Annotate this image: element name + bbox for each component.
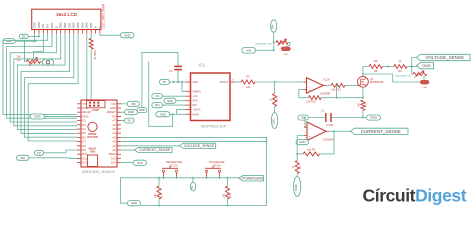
svg-text:VREFA: VREFA — [192, 89, 201, 93]
svg-text:AREF: AREF — [109, 152, 117, 156]
junction dots VDD net — [173, 81, 184, 83]
svg-text:A0: A0 — [112, 148, 116, 152]
svg-text:R9: R9 — [398, 69, 402, 73]
net flag CURRENT_SENSE mid — [134, 147, 172, 152]
svg-text:A6: A6 — [112, 123, 116, 127]
svg-text:SDI: SDI — [192, 103, 197, 107]
wire R15 — [227, 178, 229, 186]
svg-text:CN4: CN4 — [422, 87, 427, 89]
svg-text:R8: R8 — [374, 69, 378, 73]
svg-text:SCK: SCK — [192, 99, 198, 103]
resistor R9 1k — [394, 59, 407, 73]
svg-text:R2 560R: R2 560R — [94, 50, 97, 60]
resistor R14 10k pulldown decrease — [154, 186, 164, 199]
svg-text:CN1: CN1 — [283, 54, 288, 56]
svg-text:5V: 5V — [112, 114, 115, 118]
wire A pin down to R2 — [90, 34, 92, 39]
op-amp IC2B LM358N — [304, 122, 334, 142]
net flag SDI arduino D11 — [17, 155, 30, 160]
wire R14 top — [158, 178, 160, 186]
ground flag GND arduino left — [30, 114, 45, 119]
wire ic2b minus — [297, 136, 304, 154]
svg-text:CS: CS — [155, 94, 159, 98]
wire sck loop — [149, 62, 173, 127]
junction dot divider — [387, 66, 389, 68]
svg-text:RESET: RESET — [82, 110, 91, 114]
DAC IC1 MCP4921 — [186, 73, 236, 121]
wire A2 net — [121, 141, 267, 143]
svg-text:C1: C1 — [321, 108, 325, 112]
svg-text:~CS: ~CS — [192, 94, 197, 98]
wire 5V stub — [192, 178, 194, 183]
wire R4 bottom — [274, 107, 276, 113]
svg-text:5V: 5V — [128, 119, 132, 123]
svg-text:A3: A3 — [112, 135, 116, 139]
wire R13 to gate — [345, 84, 358, 86]
wire 5V to VDD — [28, 35, 39, 37]
wire R6 left — [297, 153, 303, 155]
wire GND right — [121, 111, 125, 113]
net flag POWERSAVE — [239, 176, 264, 182]
svg-text:IC1: IC1 — [199, 63, 206, 68]
wire vin vertical — [273, 32, 275, 50]
svg-text:GND: GND — [422, 64, 431, 68]
svg-text:DECREASE: DECREASE — [166, 160, 183, 164]
svg-text:A2: A2 — [112, 140, 116, 144]
resistor R3 10k — [241, 75, 255, 89]
wire K pin to GND flag — [100, 34, 121, 36]
svg-text:IC2B: IC2B — [327, 123, 333, 127]
wire divider down to trimmer — [412, 67, 413, 75]
svg-text:R4: R4 — [276, 98, 279, 102]
ground flag pot — [43, 59, 54, 65]
capacitor C1 — [321, 108, 331, 122]
junction dot avss — [172, 113, 174, 115]
wire R12 to shunt — [321, 97, 363, 99]
svg-text:D12: D12 — [82, 161, 87, 165]
wire R4 top — [274, 82, 276, 94]
ground flag GND divider — [417, 62, 434, 68]
svg-text:VIN: VIN — [272, 25, 275, 29]
svg-text:D9: D9 — [82, 148, 86, 152]
wire R14 bottom — [158, 199, 160, 206]
resistor R13 10k — [331, 83, 345, 91]
svg-text:R14: R14 — [161, 193, 164, 198]
resistor R2 560R — [89, 38, 97, 60]
wire plus input ic2b — [304, 118, 305, 128]
svg-text:D3: D3 — [82, 123, 86, 127]
svg-text:D5: D5 — [82, 131, 86, 135]
svg-text:GND: GND — [131, 201, 137, 205]
svg-text:A4: A4 — [112, 131, 116, 135]
svg-text:D13: D13 — [111, 161, 116, 165]
resistor R8 10k — [369, 59, 383, 73]
LCD part name label — [102, 3, 106, 29]
net flag VIN arduino right — [127, 101, 140, 106]
svg-text:8: 8 — [232, 80, 234, 82]
wire SCK flag — [121, 162, 133, 164]
wire trimmer to pad — [423, 76, 425, 80]
svg-text:5V: 5V — [163, 80, 167, 84]
wire R2 down to arduino — [90, 49, 92, 100]
svg-text:SDI: SDI — [20, 156, 25, 160]
wire R8 to R9 — [383, 66, 394, 68]
svg-text:MCP4921-E/P: MCP4921-E/P — [201, 124, 227, 129]
svg-text:LCD_16X2_5V0R: LCD_16X2_5V0R — [102, 3, 106, 29]
svg-text:5V: 5V — [22, 34, 26, 38]
junction dot R4 node — [274, 81, 276, 83]
svg-text:CURRENT_SENSE: CURRENT_SENSE — [139, 148, 171, 152]
wire C1 left — [308, 117, 326, 119]
wire R5 top — [296, 154, 298, 161]
svg-text:R15: R15 — [229, 193, 232, 198]
svg-text:1k: 1k — [293, 165, 295, 168]
wire LCD pin to arduino D9 — [28, 34, 78, 141]
wire LDAC — [177, 110, 186, 115]
trimmer CN4 — [395, 71, 427, 78]
capacitor C2 100nF — [169, 52, 182, 82]
wire current sense net — [121, 149, 134, 151]
wire shunt bottom — [363, 111, 367, 118]
svg-text:D6: D6 — [82, 135, 86, 139]
svg-text:GNDBREAK_GND: GNDBREAK_GND — [255, 43, 272, 46]
wire LCD pin to arduino D5 — [14, 34, 77, 126]
wire LCD pin to arduino D7 — [21, 34, 77, 134]
svg-text:10k: 10k — [154, 193, 157, 198]
wire VOUTA to R3 — [235, 81, 241, 83]
svg-text:5V: 5V — [37, 151, 41, 155]
svg-text:DTS-6: DTS-6 — [213, 164, 221, 168]
svg-text:R10: R10 — [366, 102, 368, 107]
svg-text:LM358N: LM358N — [323, 138, 334, 142]
svg-text:GND: GND — [110, 106, 116, 110]
CircuitDigest logo — [363, 186, 467, 206]
wire R5 bottom — [296, 174, 298, 177]
wire pot to flag — [41, 60, 43, 62]
supply flag 5V (LCD VDD) — [19, 34, 28, 38]
wire LCD pin to arduino D3 — [7, 34, 77, 119]
ground flag GND right of LCD — [121, 33, 135, 38]
svg-text:D8: D8 — [82, 144, 86, 148]
svg-text:SDI: SDI — [155, 103, 160, 107]
net flag VIN oval — [242, 48, 256, 54]
svg-text:USB: USB — [90, 150, 95, 153]
svg-text:5V: 5V — [190, 186, 194, 189]
net flag SCK ic1 — [164, 98, 176, 103]
wire source down — [362, 87, 364, 98]
svg-text:~LDAC: ~LDAC — [192, 108, 201, 112]
svg-text:CírcuitDigest: CírcuitDigest — [363, 186, 467, 206]
svg-text:GND: GND — [128, 110, 134, 114]
svg-text:R3: R3 — [246, 75, 250, 79]
arduino caption — [82, 170, 115, 174]
svg-text:D10: D10 — [82, 152, 87, 156]
svg-text:A7: A7 — [112, 119, 116, 123]
junction dots LCD supply — [24, 35, 40, 42]
net flag VOLTAGE_SENSE mid — [179, 143, 215, 148]
svg-text:GND: GND — [82, 114, 88, 118]
svg-text:VOLTAGE_SENSE: VOLTAGE_SENSE — [184, 144, 215, 148]
svg-text:ICSP: ICSP — [92, 108, 99, 112]
IC1 value label — [201, 124, 227, 129]
svg-text:VIN: VIN — [131, 102, 136, 106]
wire SDI flag to pin — [29, 157, 77, 160]
resistor R5 1k — [293, 161, 302, 174]
svg-text:SCK: SCK — [137, 161, 143, 165]
wire buttons gnd rail — [121, 178, 239, 203]
push button S2 INCREASE — [205, 160, 225, 178]
svg-text:IRF9540NS: IRF9540NS — [370, 80, 384, 84]
MOSFET Q1 IRF9540NS — [358, 76, 384, 87]
net flag CS — [152, 94, 163, 99]
wire SDI ic1 — [163, 104, 186, 106]
svg-text:AVSS: AVSS — [192, 112, 199, 116]
svg-text:D11: D11 — [82, 156, 87, 160]
wire pot left leg — [25, 41, 27, 61]
ground flag GND below R5 — [294, 177, 301, 197]
svg-text:1k: 1k — [399, 59, 402, 63]
ground flag GND buttons — [128, 201, 141, 206]
svg-text:GND: GND — [34, 115, 40, 119]
wire 5V flag to pin — [44, 150, 78, 153]
net flag supply top — [271, 20, 277, 33]
ground flag GND avss — [156, 112, 170, 117]
wire VREFA tie — [182, 82, 186, 91]
svg-text:ARDUINO_NANO3: ARDUINO_NANO3 — [82, 170, 115, 174]
junction dots button rail — [158, 177, 229, 207]
svg-text:10k: 10k — [223, 193, 226, 198]
svg-text:GND: GND — [124, 33, 130, 37]
push button S1 DECREASE — [162, 160, 182, 178]
svg-text:R5: R5 — [300, 165, 302, 169]
svg-text:A5: A5 — [112, 127, 116, 131]
IC1 name label — [199, 63, 206, 68]
net flag SCK arduino D13 — [133, 160, 147, 165]
wire LCD pin to arduino D4 — [10, 34, 77, 122]
wire GND to VSS — [15, 40, 37, 42]
wire gate feedback branch — [336, 85, 338, 97]
trimmer CN1 branch — [255, 39, 288, 46]
wire VIN right — [121, 103, 127, 105]
wire R3 to opamp — [255, 81, 307, 83]
wire ic2b out — [329, 130, 351, 132]
supply flag 5V current sense — [298, 115, 308, 120]
supply flag 5V arduino right — [125, 118, 135, 123]
ground flag GND arduino right — [125, 110, 138, 115]
op-amp IC2A LM358P — [304, 78, 331, 96]
wire powersave loop — [121, 137, 267, 205]
svg-text:A1: A1 — [112, 144, 116, 148]
svg-text:GND: GND — [139, 108, 145, 112]
ground flag GND ic2b plus — [296, 140, 309, 145]
wire VSS pin down — [34, 34, 36, 42]
wire CS — [163, 95, 186, 97]
svg-text:DTS-6: DTS-6 — [170, 164, 178, 168]
wire 5V right — [121, 120, 125, 122]
svg-text:VOLTAGE_SENSE: VOLTAGE_SENSE — [425, 55, 464, 60]
wire trimmer to pad cn1 — [286, 42, 290, 46]
wire SCK ic1 — [176, 100, 186, 102]
arduino nano module ARDUINO_NANO3 — [77, 100, 121, 167]
svg-text:GND: GND — [294, 184, 298, 190]
svg-text:LM358P: LM358P — [320, 92, 331, 96]
wire opamp A feedback — [299, 90, 309, 98]
svg-text:GND: GND — [160, 112, 166, 116]
LCD display LCD1 16x2 — [32, 9, 102, 33]
wire AVSS — [170, 113, 186, 115]
svg-text:GND: GND — [370, 116, 376, 120]
net flag VOLTAGE_SENSE right — [417, 54, 471, 60]
wire 5V to VDD — [170, 81, 186, 83]
resistor R4 1k — [269, 94, 279, 107]
svg-text:VIN: VIN — [111, 102, 116, 106]
wire to voltage sense tag — [412, 58, 417, 67]
svg-text:GND: GND — [299, 140, 305, 144]
ground flag GND (LCD VSS) — [3, 39, 15, 44]
svg-text:D2: D2 — [82, 119, 86, 123]
net flag SDI ic1 — [152, 103, 163, 108]
connector CN1 pad — [281, 47, 291, 56]
net flag CURRENT_SENSE right — [351, 128, 409, 134]
wire LCD pin to arduino D2 — [3, 34, 77, 115]
junction dot r12 node — [362, 97, 364, 99]
svg-text:D4: D4 — [82, 127, 86, 131]
svg-text:VOUTA: VOUTA — [219, 80, 228, 84]
wire VO to pot wiper — [34, 34, 44, 59]
resistor R6 10k — [303, 147, 319, 156]
svg-text:POWERSAVE: POWERSAVE — [242, 176, 263, 180]
ground flag GND below loop — [137, 108, 147, 113]
ground flag GND below R4 — [271, 113, 277, 129]
svg-text:1k: 1k — [269, 98, 272, 101]
wire vin flag — [256, 49, 274, 51]
svg-text:VDD: VDD — [192, 80, 198, 84]
wire GND flag to pin — [45, 115, 78, 117]
connector CN4 pad — [420, 80, 429, 89]
svg-text:5W: 5W — [359, 102, 361, 106]
svg-text:VIN: VIN — [246, 48, 251, 52]
supply flag 5V arduino D10 — [35, 150, 44, 155]
svg-text:10k R12: 10k R12 — [306, 100, 316, 104]
svg-text:GND: GND — [272, 118, 276, 124]
svg-text:INCREASE: INCREASE — [209, 160, 224, 164]
svg-text:GND: GND — [6, 39, 12, 43]
resistor R10 shunt — [359, 100, 368, 111]
svg-text:BUTTON: BUTTON — [87, 136, 98, 139]
svg-text:10k: 10k — [373, 59, 378, 63]
wire drain up — [363, 67, 369, 77]
svg-text:IC2A: IC2A — [324, 78, 330, 82]
wire opamp A out — [326, 84, 331, 86]
wire drain to output pad — [363, 74, 421, 82]
supply flag 5V between buttons — [190, 182, 196, 191]
resistor R12 10k — [306, 96, 321, 104]
ground flag GND shunt — [367, 115, 381, 120]
wire LCD pin to arduino D6 — [17, 34, 77, 130]
svg-text:SCK: SCK — [167, 99, 173, 103]
wire R9 node — [407, 66, 417, 68]
wire voltage sense net — [121, 145, 179, 147]
resistor R15 10k pulldown increase — [223, 186, 233, 199]
wire backlight anode — [86, 34, 88, 100]
svg-text:10k R6: 10k R6 — [307, 147, 316, 151]
svg-text:C2: C2 — [169, 69, 173, 73]
potentiometer R1 10k — [16, 56, 40, 67]
supply flag 5V for IC1 — [160, 79, 170, 84]
svg-text:GNDBREAK_GND: GNDBREAK_GND — [395, 75, 412, 78]
svg-text:10k: 10k — [246, 85, 251, 89]
wire feedback ic2b — [320, 131, 335, 154]
svg-text:CURRENT_SENSE: CURRENT_SENSE — [361, 129, 401, 134]
wire VDD pin down — [38, 34, 40, 37]
svg-text:D7: D7 — [82, 140, 86, 144]
wire LCD pin to arduino D8 — [25, 34, 77, 138]
wire top loop c2 — [142, 52, 178, 107]
svg-text:RESET: RESET — [107, 110, 116, 114]
svg-text:3V3: 3V3 — [111, 156, 116, 160]
svg-text:16x2 LCD: 16x2 LCD — [56, 12, 78, 17]
wire shunt to C1 — [331, 117, 363, 119]
